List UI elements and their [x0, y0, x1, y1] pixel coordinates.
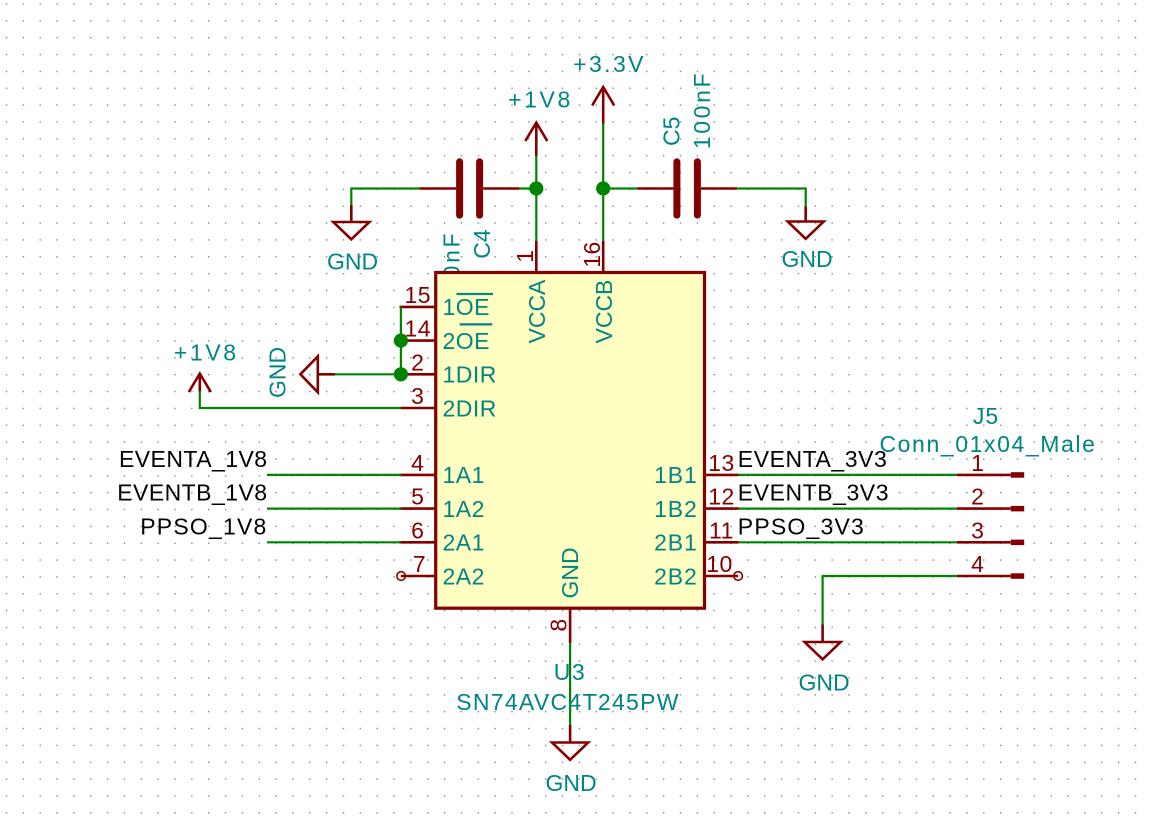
svg-text:VCCA: VCCA: [524, 279, 550, 344]
wire pin13 to J5 pin1: [739, 474, 957, 476]
junction pin14: [394, 334, 408, 348]
svg-text:2: 2: [971, 484, 984, 510]
svg-text:C4: C4: [469, 229, 495, 259]
ground GND (left, rotated) at 1DIR: [265, 347, 335, 398]
svg-text:EVENTA_3V3: EVENTA_3V3: [738, 446, 888, 472]
svg-text:100nF: 100nF: [689, 71, 715, 149]
wire pin12 to J5 pin2: [739, 508, 957, 510]
svg-text:VCCB: VCCB: [591, 280, 617, 344]
svg-text:Conn_01x04_Male: Conn_01x04_Male: [879, 431, 1096, 457]
wire +3.3V to pin16: [602, 123, 604, 241]
svg-text:4: 4: [411, 450, 424, 476]
svg-text:U3: U3: [554, 659, 586, 685]
IC U3 body: [436, 273, 705, 609]
svg-text:7: 7: [413, 551, 426, 577]
svg-text:12: 12: [708, 484, 735, 510]
svg-text:+1V8: +1V8: [508, 87, 573, 113]
svg-text:10: 10: [706, 551, 733, 577]
svg-text:3: 3: [411, 383, 424, 409]
power +1V8 (top): [508, 87, 573, 157]
svg-text:PPSO_3V3: PPSO_3V3: [738, 513, 865, 539]
ground GND (left of C4): [327, 205, 378, 275]
svg-text:GND: GND: [545, 770, 596, 796]
pin 7 (2A2) unconnected: [397, 551, 485, 589]
power +3.3V (top): [573, 51, 646, 124]
pin 14 (2OE): [400, 316, 493, 354]
pin 1 (VCCA) top: [512, 241, 550, 344]
J5 pin 3: [957, 541, 1011, 544]
wire EVENTB_1V8 to pin5: [267, 508, 401, 510]
svg-text:2: 2: [411, 349, 424, 375]
J5 pin 1: [957, 474, 1011, 477]
svg-text:13: 13: [708, 450, 735, 476]
connector J5: [879, 403, 1096, 579]
wire +1V8 to pin1: [535, 156, 537, 242]
wire junction to C5: [603, 187, 637, 189]
svg-text:GND: GND: [557, 547, 583, 598]
pin 16 (VCCB) top: [579, 241, 617, 344]
junction at C4/+1V8/pin1: [529, 181, 543, 195]
svg-text:11: 11: [709, 517, 734, 543]
svg-text:1DIR: 1DIR: [443, 362, 497, 388]
J5 pin 2: [957, 507, 1011, 510]
svg-text:1B1: 1B1: [654, 462, 698, 488]
wire pin8 to GND (bottom): [569, 643, 571, 726]
pin 13 (1B1): [654, 450, 738, 488]
pin 11 (2B1): [654, 517, 738, 555]
power +1V8 (left): [174, 339, 239, 392]
pin 5 (1A2): [400, 484, 485, 522]
wire +1V8 to pin3: [200, 391, 401, 408]
wire C4 left to GND: [351, 189, 420, 207]
wire J5 pin4 to GND: [823, 576, 957, 626]
pin 6 (2A1): [400, 517, 485, 555]
svg-text:EVENTA_1V8: EVENTA_1V8: [119, 446, 268, 472]
svg-text:2B1: 2B1: [654, 530, 698, 556]
svg-text:1: 1: [512, 250, 538, 263]
svg-text:+1V8: +1V8: [174, 339, 239, 365]
svg-text:PPSO_1V8: PPSO_1V8: [140, 513, 267, 539]
svg-text:SN74AVC4T245PW: SN74AVC4T245PW: [456, 689, 680, 715]
ground GND (right of C5): [781, 207, 832, 273]
svg-text:15: 15: [405, 282, 432, 308]
svg-text:+3.3V: +3.3V: [573, 51, 646, 77]
pin 3 (2DIR): [400, 383, 497, 421]
ground GND (below J5 pin4): [798, 625, 849, 696]
svg-text:6: 6: [411, 517, 424, 543]
wire C4 to junction: [520, 187, 537, 189]
capacitor C4: [420, 162, 520, 309]
svg-text:1: 1: [971, 450, 984, 476]
capacitor C5: [637, 71, 737, 215]
svg-text:4: 4: [971, 551, 984, 577]
svg-text:EVENTB_3V3: EVENTB_3V3: [738, 480, 889, 506]
svg-text:2OE: 2OE: [443, 328, 491, 354]
svg-text:1B2: 1B2: [654, 496, 698, 522]
svg-text:16: 16: [579, 241, 605, 268]
svg-text:J5: J5: [973, 403, 999, 429]
vertical wire pins 15-2: [400, 307, 402, 374]
svg-text:2B2: 2B2: [654, 563, 698, 589]
svg-text:GND: GND: [798, 670, 849, 696]
pin 2 (1DIR): [400, 349, 497, 387]
pin 12 (1B2): [654, 484, 738, 522]
pin 4 (1A1): [400, 450, 485, 488]
svg-text:C5: C5: [659, 117, 685, 146]
junction at C5/+3.3V/pin16: [596, 181, 610, 195]
wire PPSO_1V8 to pin6: [267, 541, 401, 543]
pin 8 (GND) bottom: [545, 547, 583, 643]
wire C5 to GND (right): [737, 189, 806, 208]
svg-text:2A1: 2A1: [443, 530, 485, 556]
J5 pin 4: [957, 575, 1011, 578]
wire EVENTA_1V8 to pin4: [267, 474, 401, 476]
wire GND arrow to pin2 junction: [334, 373, 401, 375]
svg-text:2DIR: 2DIR: [443, 395, 497, 421]
svg-text:14: 14: [405, 316, 432, 342]
svg-text:1A1: 1A1: [443, 462, 485, 488]
svg-text:GND: GND: [781, 246, 832, 272]
svg-text:3: 3: [971, 517, 984, 543]
svg-text:5: 5: [411, 484, 424, 510]
ground GND (bottom): [545, 725, 596, 796]
svg-text:GND: GND: [265, 347, 291, 398]
svg-text:8: 8: [545, 619, 571, 632]
pin 10 (2B2) unconnected: [654, 551, 742, 589]
svg-text:1OE: 1OE: [443, 294, 491, 320]
svg-text:GND: GND: [327, 249, 378, 275]
svg-text:2A2: 2A2: [443, 563, 485, 589]
junction pin2: [394, 367, 408, 381]
svg-text:1A2: 1A2: [443, 496, 485, 522]
svg-text:EVENTB_1V8: EVENTB_1V8: [117, 480, 267, 506]
pin 15 (1OE): [400, 282, 494, 320]
wire pin11 to J5 pin3: [739, 541, 957, 543]
